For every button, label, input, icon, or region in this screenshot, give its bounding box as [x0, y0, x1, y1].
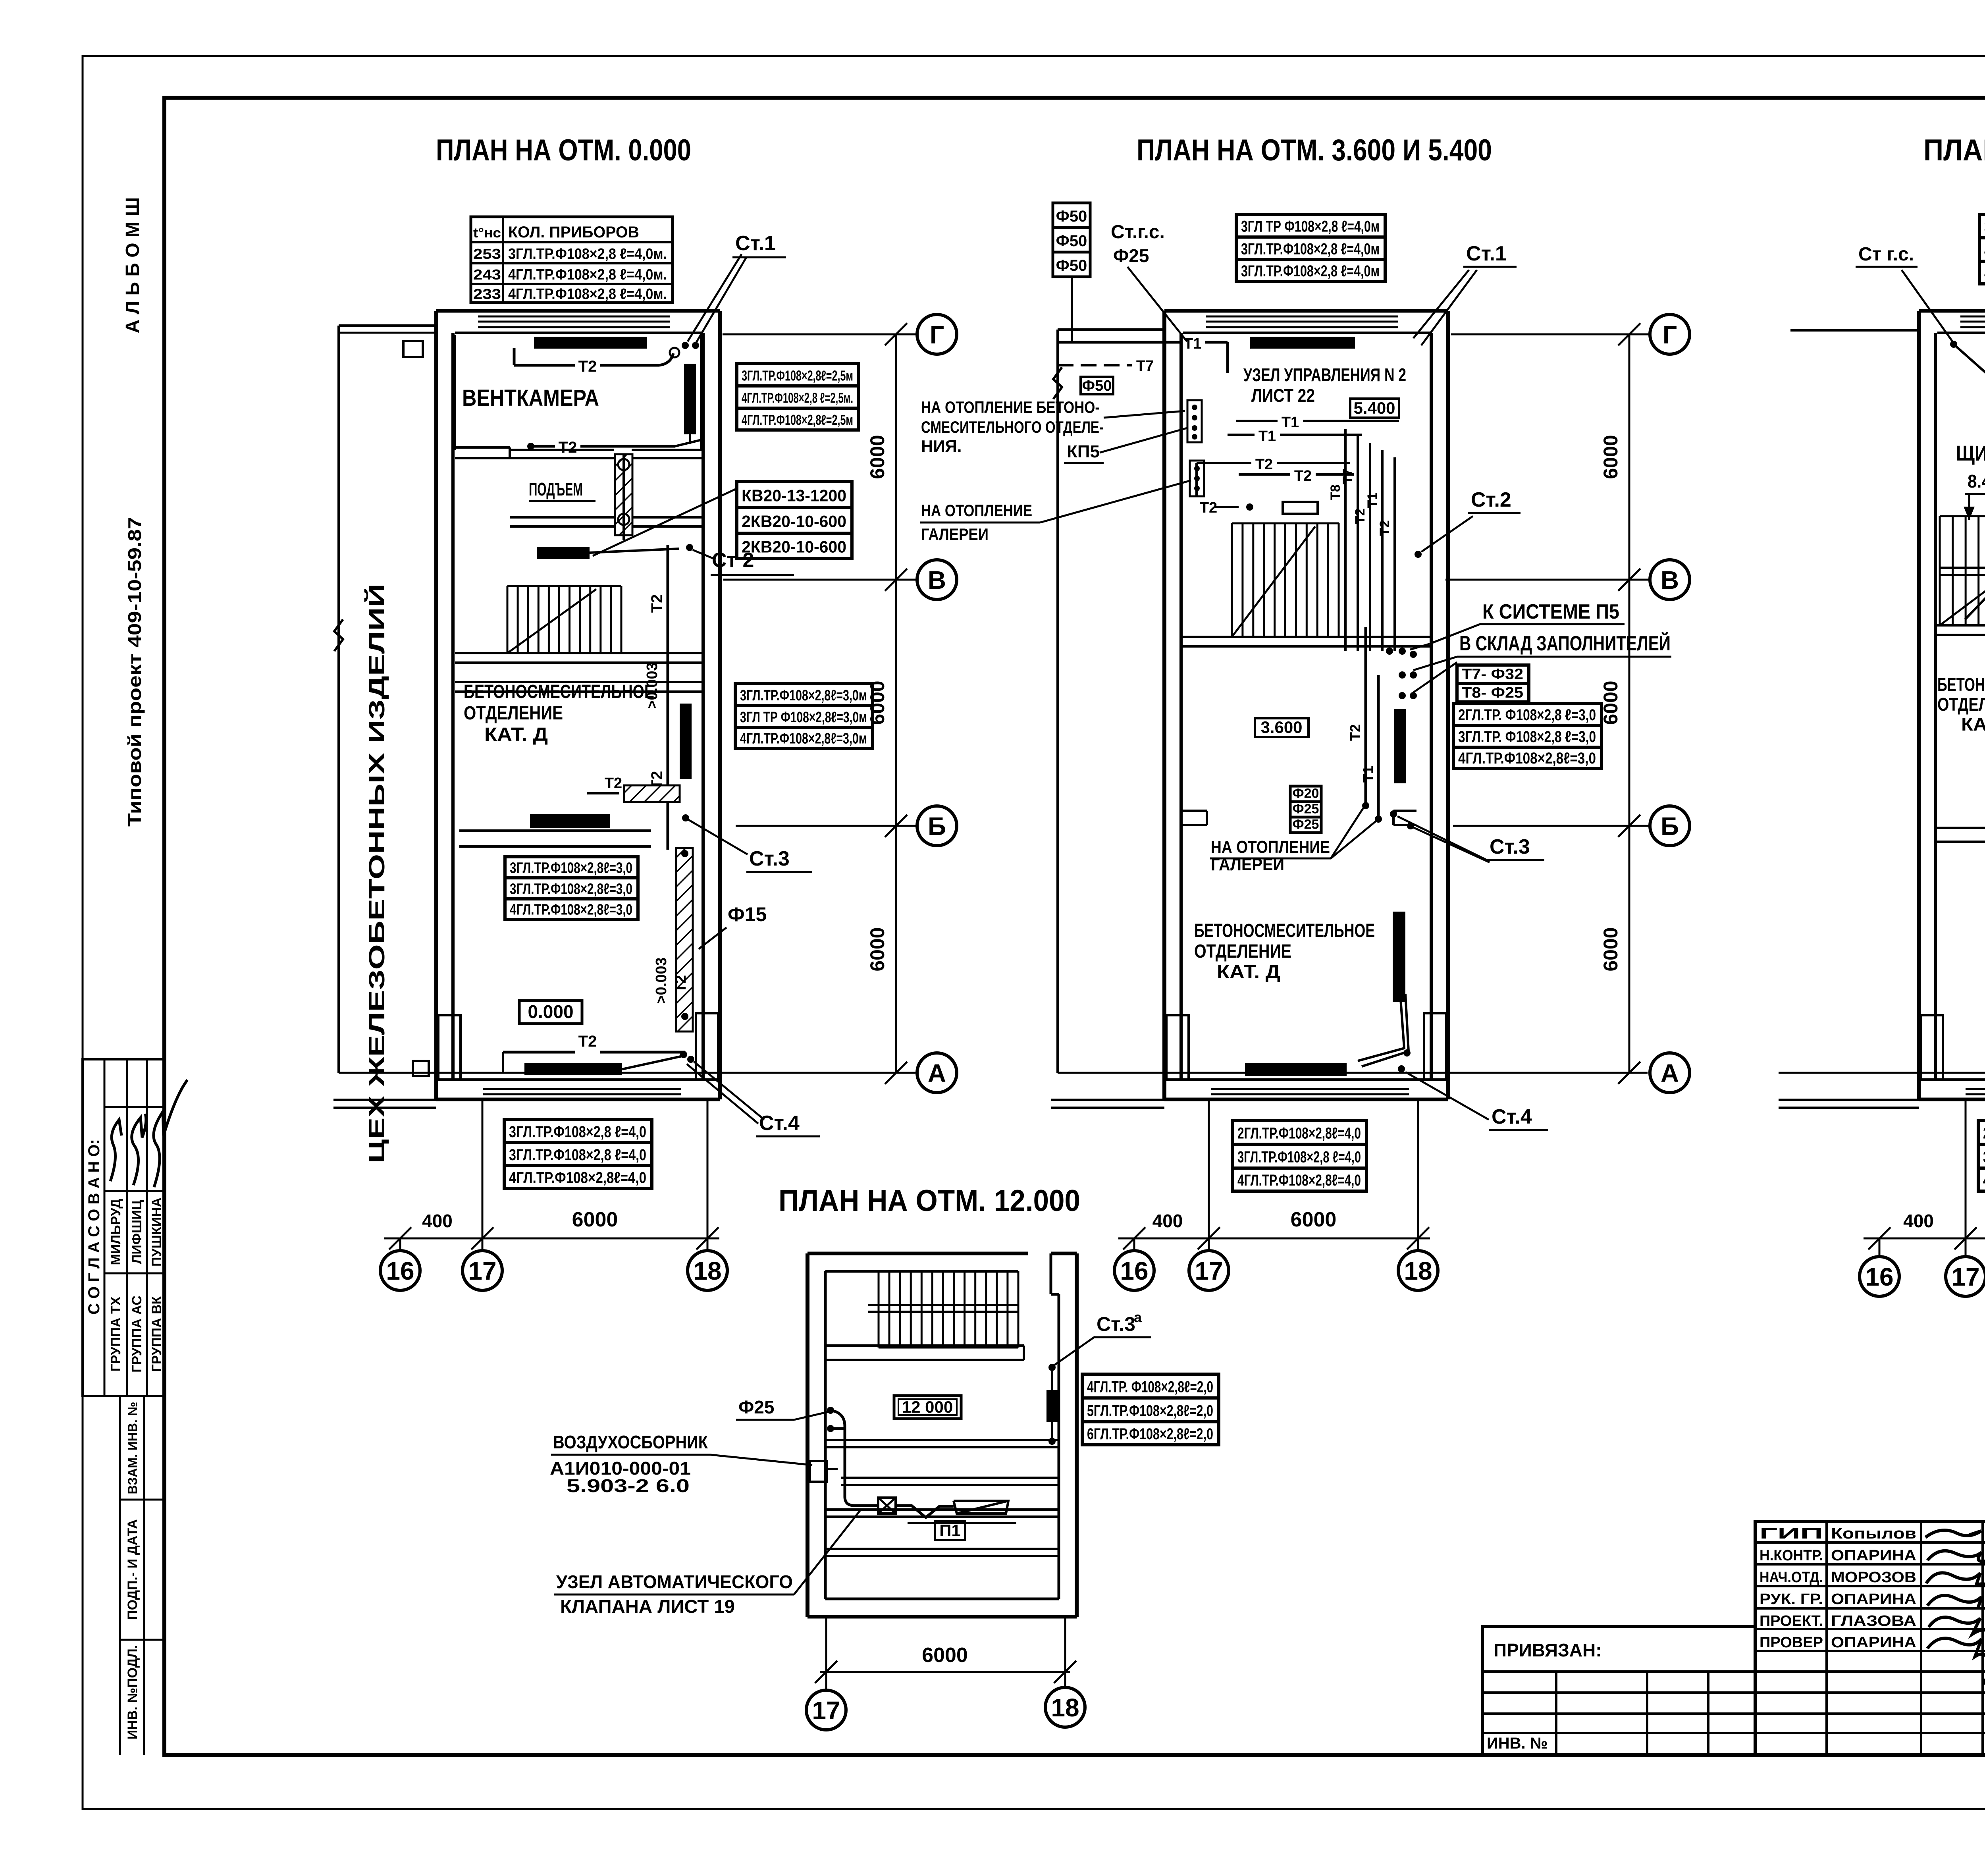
plan4 spec table — [1082, 1374, 1219, 1398]
svg-text:В СКЛАД ЗАПОЛНИТЕЛЕЙ: В СКЛАД ЗАПОЛНИТЕЛЕЙ — [1459, 632, 1671, 655]
title block privyazan table — [1482, 1627, 1755, 1755]
plan1 corridor walls — [510, 516, 614, 519]
plan1 radiator mid right vertical — [680, 704, 692, 779]
svg-text:6000: 6000 — [1600, 435, 1622, 479]
svg-text:ГЛАЗОВА: ГЛАЗОВА — [1831, 1613, 1916, 1629]
svg-text:4ГЛ.ТР.Ф108×2,8ℓ=4,0: 4ГЛ.ТР.Ф108×2,8ℓ=4,0 — [1983, 1172, 1985, 1189]
svg-text:4ГЛ.ТР.Ф108×2,8 ℓ=4,0м.: 4ГЛ.ТР.Ф108×2,8 ℓ=4,0м. — [508, 266, 667, 283]
svg-text:ПУШКИНА: ПУШКИНА — [149, 1197, 164, 1267]
svg-text:Ф25: Ф25 — [1113, 245, 1149, 266]
plan1 vertical pipe T2 — [667, 545, 669, 850]
svg-text:253: 253 — [473, 246, 501, 262]
svg-text:3ГЛ.ТР.Ф108×2,8ℓ=2,5м: 3ГЛ.ТР.Ф108×2,8ℓ=2,5м — [742, 368, 853, 384]
building top gallery band — [1164, 309, 1448, 313]
plan2 connector boxes with dots — [1187, 400, 1202, 442]
plan4 axis circle 18 — [1045, 1687, 1085, 1727]
svg-text:Т1: Т1 — [1282, 414, 1299, 431]
plan1 spec table 3.0m right — [735, 684, 873, 706]
svg-text:Ст.1: Ст.1 — [1466, 242, 1507, 265]
svg-text:ГРУППА АС: ГРУППА АС — [129, 1296, 145, 1373]
svg-text:Т2: Т2 — [1294, 468, 1312, 484]
building outer walls — [434, 311, 438, 1099]
plan3 spec table top — [1979, 214, 1985, 238]
svg-text:0.000: 0.000 — [528, 1001, 573, 1022]
plan4 floor lines — [825, 1439, 1059, 1441]
bottom dimension line — [1864, 1238, 1985, 1240]
svg-text:17: 17 — [468, 1257, 496, 1285]
plan3 walkway lines left — [1779, 1099, 1919, 1101]
svg-text:3ГЛ.ТР.Ф108×2,8 ℓ=4,0м.: 3ГЛ.ТР.Ф108×2,8 ℓ=4,0м. — [508, 246, 667, 262]
svg-text:16: 16 — [1865, 1263, 1893, 1291]
plan2 wall below stairs — [1181, 636, 1431, 638]
svg-text:Т2: Т2 — [1353, 508, 1368, 524]
plan4 valve cross symbol — [878, 1498, 896, 1514]
bottom corner pillars — [438, 1015, 461, 1080]
svg-text:Ф50: Ф50 — [1056, 208, 1087, 225]
svg-text:Т2: Т2 — [559, 439, 577, 456]
bottom dimension line — [384, 1238, 719, 1240]
svg-text:РУК. ГР.: РУК. ГР. — [1760, 1591, 1823, 1608]
svg-text:Ф20: Ф20 — [1293, 786, 1319, 801]
svg-text:КЛАПАНА ЛИСТ 19: КЛАПАНА ЛИСТ 19 — [560, 1596, 735, 1617]
title block signatures column squiggles — [1925, 1530, 1981, 1537]
svg-text:18: 18 — [693, 1257, 721, 1285]
plan2 box Ф50 — [1081, 377, 1113, 394]
svg-text:ОПАРИНА: ОПАРИНА — [1831, 1547, 1916, 1564]
svg-text:Ст.3: Ст.3 — [1490, 835, 1530, 858]
svg-text:16: 16 — [1120, 1257, 1148, 1285]
plan2 axis line Б — [1453, 825, 1651, 827]
svg-text:3ГЛ.ТР.Ф108×2,8 ℓ=4,0: 3ГЛ.ТР.Ф108×2,8 ℓ=4,0 — [509, 1146, 646, 1164]
plan1 walkway lines left — [333, 1099, 436, 1101]
plan4 valve unit box at wall — [810, 1461, 827, 1482]
svg-text:8.400: 8.400 — [1968, 471, 1985, 492]
svg-text:П1: П1 — [939, 1521, 961, 1540]
building top gallery band — [436, 309, 720, 313]
axis circle 16 — [1114, 1251, 1154, 1290]
plan1 radiator right vertical — [684, 364, 696, 434]
bottom dimension line — [1118, 1238, 1430, 1240]
svg-text:3ГЛ.ТР. Ф108×2,8 ℓ=3,0: 3ГЛ.ТР. Ф108×2,8 ℓ=3,0 — [1458, 728, 1596, 746]
svg-text:НА ОТОПЛЕНИЕ: НА ОТОПЛЕНИЕ — [921, 501, 1032, 520]
plan2 pipe T1 from left — [1058, 341, 1180, 344]
svg-text:ИНВ. №ПОДЛ.: ИНВ. №ПОДЛ. — [125, 1645, 140, 1739]
plan1 axis line Г — [723, 334, 917, 335]
svg-text:3ГЛ.ТР.Ф108×2,8ℓ=3,0: 3ГЛ.ТР.Ф108×2,8ℓ=3,0 — [510, 881, 632, 897]
svg-text:С О Г Л А С О В А Н О:: С О Г Л А С О В А Н О: — [85, 1139, 103, 1315]
svg-text:МОРОЗОВ: МОРОЗОВ — [1831, 1569, 1916, 1586]
svg-text:Т2: Т2 — [1347, 724, 1363, 741]
svg-text:17: 17 — [812, 1696, 840, 1725]
svg-text:БЕТОНОСМЕСИТЕЛЬНОЕ: БЕТОНОСМЕСИТЕЛЬНОЕ — [1937, 674, 1985, 695]
axis circle Б — [1650, 806, 1690, 846]
svg-text:4ГЛ.ТР.Ф108×2,8ℓ=4,0: 4ГЛ.ТР.Ф108×2,8ℓ=4,0 — [1237, 1172, 1361, 1189]
plan4 bottom dimension — [820, 1671, 1070, 1673]
svg-text:6000: 6000 — [866, 681, 888, 725]
svg-text:400: 400 — [422, 1211, 453, 1231]
svg-text:3ГЛ.ТР.Ф108×2,8ℓ=3,0: 3ГЛ.ТР.Ф108×2,8ℓ=3,0 — [510, 860, 632, 876]
plan4 vertical pipe and trap — [844, 1429, 846, 1497]
svg-text:ПОДЪЕМ: ПОДЪЕМ — [529, 479, 583, 499]
plan1 riser F15 hatched bar — [676, 848, 693, 1032]
plan1 pipe to St2 — [590, 549, 661, 553]
svg-text:ГРУППА ТХ: ГРУППА ТХ — [108, 1296, 123, 1371]
svg-text:2КВ20-10-600: 2КВ20-10-600 — [742, 538, 846, 556]
svg-text:17: 17 — [1951, 1263, 1979, 1291]
plan2 stairs — [1232, 523, 1339, 524]
svg-text:ПОДП.- И ДАТА: ПОДП.- И ДАТА — [125, 1519, 140, 1620]
plan3 A axis gallery line — [1779, 1072, 1985, 1074]
svg-text:400: 400 — [1903, 1211, 1934, 1231]
plan4 label П1 — [935, 1521, 965, 1540]
svg-text:НАЧ.ОТД.: НАЧ.ОТД. — [1760, 1569, 1823, 1586]
plan1 axis line Б — [736, 825, 917, 827]
svg-text:Ф25: Ф25 — [1293, 802, 1319, 817]
axis circle 16 — [380, 1251, 420, 1290]
svg-text:3ГЛ.ТР.Ф108×2,8 ℓ=4,0м: 3ГЛ.ТР.Ф108×2,8 ℓ=4,0м — [1241, 262, 1380, 280]
axis circle 17 — [1189, 1251, 1229, 1290]
svg-text:Т7: Т7 — [1136, 358, 1154, 374]
svg-text:233: 233 — [473, 286, 501, 302]
plan1 hoist shaft hatched — [615, 454, 632, 535]
plan2 pipes T1 T2 horizontals — [1236, 420, 1278, 422]
plan3 stairs — [1940, 515, 1985, 517]
axis circle Г — [1650, 314, 1690, 354]
svg-text:Б: Б — [1661, 812, 1679, 841]
plan2 radiator right mid — [1394, 709, 1406, 783]
svg-text:Т1: Т1 — [1365, 492, 1380, 508]
svg-text:А: А — [928, 1059, 946, 1087]
axis circle А — [917, 1053, 957, 1093]
plan1 small outside notch — [403, 341, 423, 357]
plan1 A axis gallery line — [339, 1072, 915, 1074]
plan1 instrument table — [471, 217, 673, 303]
svg-text:К СИСТЕМЕ П5: К СИСТЕМЕ П5 — [1482, 600, 1619, 623]
svg-text:Т2: Т2 — [1377, 520, 1392, 536]
plan3 diagonal pipes from top corners — [1950, 341, 1957, 348]
axis circle 18 — [1398, 1251, 1438, 1290]
plan2 dots for risers — [1386, 648, 1393, 655]
svg-text:Т8: Т8 — [1328, 484, 1343, 500]
svg-text:Копылов: Копылов — [1831, 1525, 1916, 1542]
svg-text:ГАЛЕРЕИ: ГАЛЕРЕИ — [921, 525, 989, 544]
axis circle Б — [917, 806, 957, 846]
svg-text:КВ20-13-1200: КВ20-13-1200 — [742, 486, 846, 505]
plan2 spec table bottom — [1233, 1120, 1366, 1144]
svg-text:6000: 6000 — [1291, 1208, 1337, 1231]
svg-text:ОТДЕЛЕНИЕ: ОТДЕЛЕНИЕ — [464, 703, 563, 724]
bottom corner pillars — [1166, 1015, 1189, 1080]
plan4 trap zigzag — [896, 1506, 954, 1517]
svg-text:НИЯ.: НИЯ. — [921, 437, 962, 455]
plan4 pipe dots at wall — [827, 1407, 834, 1414]
plan1 radiator top — [534, 337, 647, 349]
svg-text:ПЛАН НА ОТМ. 3.600 И 5.40: ПЛАН НА ОТМ. 3.600 И 5.400 — [1137, 133, 1492, 167]
plan1 pipe T2 upper — [514, 364, 575, 367]
svg-text:4ГЛ.ТР.Ф108×2,8ℓ=2,5м: 4ГЛ.ТР.Ф108×2,8ℓ=2,5м — [742, 412, 853, 428]
svg-text:Т7- Ф32: Т7- Ф32 — [1462, 666, 1523, 683]
svg-text:В: В — [928, 566, 946, 594]
svg-text:3ГЛ.ТР.Ф108×2,8 ℓ=4,0: 3ГЛ.ТР.Ф108×2,8 ℓ=4,0 — [1983, 1149, 1985, 1166]
plan1 shaft riser line — [622, 454, 625, 540]
axis circle 16 — [1860, 1257, 1899, 1296]
svg-text:ПЛАН НА ОТМ. 0.000: ПЛАН НА ОТМ. 0.000 — [436, 133, 691, 167]
svg-text:Н.КОНТР.: Н.КОНТР. — [1760, 1547, 1823, 1564]
svg-text:4ГЛ.ТР.Ф108×2,8ℓ=3,0: 4ГЛ.ТР.Ф108×2,8ℓ=3,0 — [1458, 750, 1596, 767]
svg-text:>0.003: >0.003 — [653, 957, 670, 1004]
svg-text:ПРОЕКТ.: ПРОЕКТ. — [1760, 1613, 1823, 1629]
svg-text:18: 18 — [1051, 1693, 1079, 1722]
plan1 wall under stairs — [455, 652, 703, 654]
svg-text:6000: 6000 — [866, 435, 888, 479]
svg-text:Ст 2: Ст 2 — [712, 549, 754, 572]
svg-text:Т1: Т1 — [1258, 428, 1276, 445]
svg-text:ПРОВЕР: ПРОВЕР — [1760, 1634, 1823, 1651]
svg-text:Типовой проект 409-10-59.87: Типовой проект 409-10-59.87 — [124, 517, 145, 827]
plan2 spec table top — [1236, 214, 1385, 237]
svg-text:ПРИВЯЗАН:: ПРИВЯЗАН: — [1494, 1640, 1602, 1660]
plan1 left small square at bottom — [413, 1061, 429, 1076]
svg-text:Ст.г.с.: Ст.г.с. — [1111, 222, 1165, 243]
svg-text:17: 17 — [1195, 1257, 1223, 1285]
svg-text:18: 18 — [1404, 1257, 1432, 1285]
svg-text:Т8- Ф25: Т8- Ф25 — [1462, 684, 1523, 701]
plan3 left gallery line — [1790, 329, 1919, 332]
svg-text:Г: Г — [930, 320, 944, 349]
svg-text:3ГЛ.ТР.Ф108×2,8 ℓ=4,0м: 3ГЛ.ТР.Ф108×2,8 ℓ=4,0м — [1241, 240, 1380, 258]
svg-text:ОТДЕЛЕНИЕ: ОТДЕЛЕНИЕ — [1194, 941, 1291, 962]
plan1 table KV20 — [737, 482, 852, 507]
plan1 radiator bottom — [524, 1063, 622, 1075]
svg-text:БЕТОНОСМЕСИТЕЛЬНОЕ: БЕТОНОСМЕСИТЕЛЬНОЕ — [1194, 920, 1375, 941]
plan2 pipe from bar to bottom radiator — [1358, 994, 1404, 1061]
svg-text:ИНВ. №: ИНВ. № — [1487, 1735, 1548, 1752]
plan2 label St.4 — [1405, 1072, 1489, 1120]
plan4 riser bar — [1051, 1367, 1053, 1439]
svg-text:Ст.1: Ст.1 — [735, 232, 776, 255]
svg-text:УЗЕЛ АВТОМАТИЧЕСКОГО: УЗЕЛ АВТОМАТИЧЕСКОГО — [556, 1571, 793, 1592]
plan1 pipe T2 with hatched duct — [587, 792, 619, 794]
svg-text:6000: 6000 — [572, 1208, 618, 1231]
svg-text:3ГЛ.ТР.Ф108×2,8 ℓ=4,0: 3ГЛ.ТР.Ф108×2,8 ℓ=4,0 — [1237, 1149, 1361, 1166]
svg-text:5.903-2 6.0: 5.903-2 6.0 — [567, 1475, 690, 1496]
sidebar lower cells — [119, 1396, 121, 1755]
plan2 stack Ф50 — [1053, 203, 1090, 228]
plan1 radiator above B axis — [530, 814, 610, 828]
building outer walls — [1162, 311, 1166, 1099]
axis circle В — [917, 560, 957, 600]
svg-text:3ГЛ ТР Ф108×2,8 ℓ=4,0м: 3ГЛ ТР Ф108×2,8 ℓ=4,0м — [1241, 218, 1380, 235]
plan4 building outline — [806, 1253, 809, 1617]
svg-text:УЗЕЛ УПРАВЛЕНИЯ N 2: УЗЕЛ УПРАВЛЕНИЯ N 2 — [1243, 364, 1406, 385]
svg-text:ГРУППА ВК: ГРУППА ВК — [149, 1296, 164, 1372]
svg-text:Т2: Т2 — [578, 358, 597, 375]
title block signature table — [1755, 1521, 1985, 1755]
svg-text:В: В — [1661, 566, 1679, 594]
plan4 label 12000 double boxed — [894, 1396, 961, 1419]
plan1 radiator small dark — [537, 547, 590, 559]
bottom corner pillars — [1921, 1015, 1943, 1080]
svg-text:5.400: 5.400 — [1353, 399, 1395, 417]
svg-text:КП5: КП5 — [1067, 442, 1100, 461]
plan1 riser St1 dots — [682, 342, 689, 349]
svg-text:6ГЛ.ТР.Ф108×2,8ℓ=2,0: 6ГЛ.ТР.Ф108×2,8ℓ=2,0 — [1087, 1425, 1213, 1443]
building outer walls — [1917, 311, 1921, 1099]
plan2 radiator bottom — [1245, 1063, 1347, 1076]
svg-text:КАТ. Д: КАТ. Д — [1961, 714, 1985, 735]
svg-text:Т1: Т1 — [1360, 766, 1376, 783]
plan2 axis line Г — [1451, 334, 1650, 335]
svg-text:ЦЕХ ЖЕЛЕЗОБЕТОННЫХ ИЗДЕЛИЙ: ЦЕХ ЖЕЛЕЗОБЕТОННЫХ ИЗДЕЛИЙ — [364, 584, 389, 1163]
plan1 beton room top wall — [455, 681, 703, 683]
plan2 long risers T2 T1 — [1364, 627, 1367, 803]
svg-text:6000: 6000 — [1600, 681, 1622, 725]
plan1 table right 2.5m — [737, 364, 859, 386]
plan2 axis line В — [1445, 579, 1650, 581]
plan2 small box on pipe — [1283, 502, 1318, 514]
plan4 stairs — [879, 1271, 1018, 1273]
plan1 pipe T2 lower ventkamera — [527, 443, 534, 450]
axis stems — [1879, 1238, 1881, 1257]
plan1 axis line В — [723, 579, 918, 581]
axis circle А — [1650, 1053, 1690, 1093]
plan1 wall at B axis — [459, 829, 651, 832]
svg-text:16: 16 — [386, 1257, 414, 1285]
svg-text:БЕТОНОСМЕСИТЕЛЬНОЕ: БЕТОНОСМЕСИТЕЛЬНОЕ — [464, 681, 654, 702]
svg-text:КАТ. Д: КАТ. Д — [484, 724, 548, 745]
svg-text:3ГЛ ТР Ф108×2,8ℓ=3,0м: 3ГЛ ТР Ф108×2,8ℓ=3,0м — [740, 709, 867, 726]
svg-text:НА ОТОПЛЕНИЕ: НА ОТОПЛЕНИЕ — [1211, 837, 1330, 857]
svg-text:ГИП: ГИП — [1760, 1525, 1823, 1542]
svg-text:12 000: 12 000 — [902, 1398, 953, 1416]
svg-text:5ГЛ.ТР.Ф108×2,8ℓ=2,0: 5ГЛ.ТР.Ф108×2,8ℓ=2,0 — [1087, 1402, 1213, 1420]
plan2 A axis gallery line — [1058, 1072, 1648, 1074]
building bottom wall band — [436, 1098, 720, 1101]
svg-text:ЛИФШИЦ: ЛИФШИЦ — [129, 1200, 145, 1264]
axis stems — [1133, 1238, 1135, 1251]
svg-text:НА ОТОПЛЕНИЕ БЕТОНО-: НА ОТОПЛЕНИЕ БЕТОНО- — [921, 398, 1100, 416]
svg-text:Б: Б — [928, 812, 946, 841]
axis circle 18 — [688, 1251, 727, 1290]
svg-text:6000: 6000 — [922, 1644, 968, 1667]
plan3 wall at Б axis — [1935, 827, 1985, 829]
plan1 adjacent gallery wall left — [339, 324, 436, 327]
svg-text:СМЕСИТЕЛЬНОГО ОТДЕЛЕ-: СМЕСИТЕЛЬНОГО ОТДЕЛЕ- — [921, 418, 1104, 436]
svg-text:4ГЛ.ТР.Ф108×2,8 ℓ=2,5м.: 4ГЛ.ТР.Ф108×2,8 ℓ=2,5м. — [742, 390, 853, 406]
svg-text:А Л Ь Б О М Ш: А Л Ь Б О М Ш — [122, 197, 143, 334]
svg-text:Т7: Т7 — [1340, 469, 1355, 484]
plan1 label St 2 — [693, 550, 715, 559]
axis stems — [399, 1238, 401, 1251]
svg-text:243: 243 — [473, 266, 501, 283]
svg-text:Т2: Т2 — [605, 775, 622, 792]
svg-text:Ст.3: Ст.3 — [749, 847, 790, 870]
svg-text:4ГЛ.ТР.Ф108×2,8 ℓ=4,0м.: 4ГЛ.ТР.Ф108×2,8 ℓ=4,0м. — [508, 286, 667, 303]
plan1 bottom pipe T2 — [503, 1051, 575, 1054]
svg-text:КАТ. Д: КАТ. Д — [1217, 962, 1280, 983]
svg-text:Ф50: Ф50 — [1056, 232, 1087, 250]
svg-text:Т2: Т2 — [1255, 456, 1273, 473]
svg-text:2ГЛ.ТР.Ф108×2,8 ℓ=4,0: 2ГЛ.ТР.Ф108×2,8 ℓ=4,0 — [1983, 1125, 1985, 1142]
svg-text:t°нс: t°нс — [473, 226, 501, 241]
svg-text:2ГЛ.ТР.Ф108×2,8ℓ=4,0: 2ГЛ.ТР.Ф108×2,8ℓ=4,0 — [1237, 1125, 1361, 1142]
plan3 spec table bottom — [1978, 1120, 1985, 1144]
plan2 table T7 T8 — [1457, 665, 1529, 684]
svg-text:ЩИТОВАЯ: ЩИТОВАЯ — [1956, 442, 1985, 465]
plan1 ventkamera room walls — [454, 335, 456, 450]
plan1 leader from KV20 to radiator — [593, 488, 738, 556]
svg-text:Ф25: Ф25 — [1293, 817, 1319, 832]
svg-text:4ГЛ.ТР.Ф108×2,8ℓ=3,0м: 4ГЛ.ТР.Ф108×2,8ℓ=3,0м — [740, 730, 867, 747]
svg-text:Т2: Т2 — [673, 975, 689, 993]
plan1 label St.4 — [687, 1064, 758, 1124]
svg-text:Ст.4: Ст.4 — [1492, 1105, 1532, 1128]
svg-text:КОЛ. ПРИБОРОВ: КОЛ. ПРИБОРОВ — [508, 224, 639, 241]
svg-text:ПЛАН НА ОТМ. 8400; 9.300: ПЛАН НА ОТМ. 8400; 9.300 — [1923, 133, 1985, 167]
svg-text:ЛИСТ 22: ЛИСТ 22 — [1251, 385, 1315, 406]
sidebar approvals table — [83, 1059, 164, 1396]
axis circle В — [1650, 560, 1690, 600]
svg-text:ВОЗДУХОСБОРНИК: ВОЗДУХОСБОРНИК — [553, 1432, 708, 1452]
svg-text:Т2: Т2 — [1200, 499, 1217, 516]
svg-text:Ф25: Ф25 — [738, 1397, 774, 1417]
svg-text:ОПАРИНА: ОПАРИНА — [1831, 1591, 1916, 1608]
plan1 spec table 3.0 below B — [505, 857, 638, 878]
svg-text:6000: 6000 — [866, 927, 888, 971]
svg-text:МИЛЬРУД: МИЛЬРУД — [108, 1199, 123, 1265]
plan2 stack Ф20 Ф25 Ф25 — [1290, 786, 1321, 802]
plan1 spec table bottom 4.0 — [504, 1120, 652, 1143]
svg-text:Ст.2: Ст.2 — [1471, 488, 1511, 511]
svg-text:Ф50: Ф50 — [1056, 257, 1087, 274]
svg-text:а: а — [1134, 1309, 1142, 1325]
svg-text:Ст.3: Ст.3 — [1097, 1313, 1135, 1335]
svg-text:400: 400 — [1152, 1211, 1183, 1231]
plan2 radiator right lower vertical — [1393, 912, 1405, 1002]
plan2 vertical pipe bundle — [1344, 429, 1347, 651]
plan1 leader to St.1 — [688, 254, 742, 341]
sidebar signature squiggles — [110, 1120, 121, 1181]
plan1 label St.3 — [682, 814, 689, 821]
plan1 label 0.000 boxed — [519, 1001, 582, 1024]
svg-text:3.600: 3.600 — [1260, 718, 1302, 737]
svg-text:ВЕНТКАМЕРА: ВЕНТКАМЕРА — [462, 385, 599, 411]
axis circle 17 — [1946, 1257, 1985, 1296]
plan2 pipe T2 short with dot — [1215, 506, 1239, 508]
plan4 wall below stairs — [825, 1344, 1024, 1347]
svg-text:2КВ20-10-600: 2КВ20-10-600 — [742, 512, 846, 530]
svg-text:Т1: Т1 — [1184, 335, 1201, 352]
svg-text:Т2: Т2 — [648, 594, 666, 613]
svg-text:Г: Г — [1663, 320, 1677, 349]
vertical dimension line 6000 — [895, 334, 897, 1073]
svg-text:Ст.4: Ст.4 — [759, 1112, 800, 1135]
building bottom wall band — [1919, 1098, 1985, 1101]
svg-text:Ф15: Ф15 — [728, 903, 767, 925]
axis circle Г — [917, 314, 957, 354]
plan4 axis circle 17 — [806, 1690, 846, 1730]
svg-text:ОПАРИНА: ОПАРИНА — [1831, 1634, 1916, 1651]
svg-text:2ГЛ.ТР. Ф108×2,8 ℓ=3,0: 2ГЛ.ТР. Ф108×2,8 ℓ=3,0 — [1458, 706, 1596, 724]
building bottom wall band — [1164, 1098, 1448, 1101]
svg-text:4ГЛ.ТР.Ф108×2,8ℓ=3,0: 4ГЛ.ТР.Ф108×2,8ℓ=3,0 — [510, 902, 632, 918]
building top gallery band — [1919, 309, 1985, 313]
svg-text:Т2: Т2 — [578, 1033, 597, 1050]
plan2 walkway lines left — [1051, 1099, 1164, 1101]
svg-text:3ГЛ.ТР.Ф108×2,8 ℓ=4,0: 3ГЛ.ТР.Ф108×2,8 ℓ=4,0 — [509, 1123, 646, 1141]
plan2 radiator top — [1250, 337, 1355, 349]
plan2 label 3.600 boxed — [1255, 718, 1309, 737]
